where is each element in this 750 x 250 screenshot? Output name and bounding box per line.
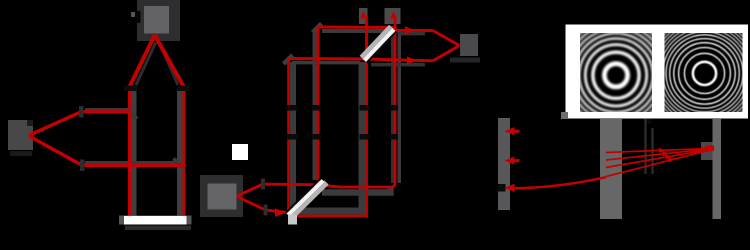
arrow right on bottom output [407,56,417,64]
mirror box M1 outer [137,0,180,41]
arrow up at C top [360,11,367,19]
ghost label under D1 [10,151,32,156]
lens tick bowtie2 upper [261,179,265,190]
arrow right on top output [405,26,415,34]
wire: cavity left vertical [128,86,131,216]
gray tube wall left [131,91,137,216]
wire: top horizontal y27 [318,26,395,29]
gray companion C left (pipe with bottom bend) [296,62,362,211]
gray tube wall right [177,91,183,216]
funnel wall right [159,42,178,85]
M2 dark base [125,226,191,231]
wire: vertical B [317,27,320,185]
gray companion under y187 horizontal + bend up [322,186,391,193]
detector box D1 [8,120,33,150]
arrow into plate top [505,127,520,135]
gray band above beam y112 [85,108,128,112]
gray detector stub top C [359,8,368,24]
gray block panel bottom-left corner [561,112,568,119]
funnel wall left [136,42,156,85]
arrow into plate middle [505,156,520,164]
gray companion A right [290,62,296,207]
zone plate bar (middle) [600,119,622,219]
lens tick bowtie2 lower [264,205,268,216]
laser box L2 outer [200,175,243,217]
arrow into plate bottom + long beam [505,177,607,192]
lens tick left bend [124,86,137,92]
zone plate left [554,13,678,137]
mirror tick at corner B top [313,24,322,33]
mirror M2 gray cap right [187,216,192,225]
mirror tick at T junction x129 [127,108,137,119]
observation plate [498,118,510,210]
M1 left notch [135,11,141,23]
wire: bowtie lower diagonal + horizontal y165 [29,136,186,165]
thin gray grating line 2 [651,128,653,174]
wire: vertical A [287,59,290,213]
lens tick right bend [177,86,190,92]
red blob at source tip [705,146,714,152]
mirror M2 gray cap left [119,216,124,225]
beam splitter BS2 (upper) [362,27,396,63]
wire: V beam right leg [155,35,184,86]
laser box L2 inner [208,184,237,210]
mirror tick at T junction x184 [174,159,185,170]
D1 top-right notch [27,120,33,126]
eye detector gray box [460,34,478,56]
gray detector stub top D [385,8,401,24]
wire: horizontal y58.7 [289,59,434,61]
point source bar (right) [713,119,722,219]
mirror tick at corner A top [284,55,293,64]
wire: eye cone bottom [433,46,459,61]
gray companion D right [398,31,402,183]
mirror M2 white bar [124,216,187,225]
wire: bowtie upper diagonal + horizontal y112 [29,112,131,136]
wire: V beam left leg [130,35,155,87]
gray blob behind source tip [701,142,713,160]
gray companion under y58.7 horizontal [292,61,360,65]
wire: bowtie2 lower diagonal [237,197,291,213]
wire: vertical C with bottom bend [291,16,367,216]
zone plate right [646,15,750,131]
white square marker [232,144,248,160]
gray companion B left [313,31,317,180]
beam splitter BS1 (lower) [286,178,327,224]
thin gray grating line 1 [644,119,646,174]
wire: cavity right vertical [183,85,186,216]
gray companion under y61 output [371,63,425,66]
mirror box M1 inner [144,6,169,34]
red fan lines [606,148,714,176]
lens tick upper vertex [79,106,84,118]
red speck on panel edge [570,64,574,68]
aperture ticks row 2 [287,134,298,140]
white panel [566,25,749,119]
wire: top output y30 [395,28,433,31]
ghost label under eye [450,58,480,63]
gray companion under top output [399,32,425,35]
arrow on lower input beam [275,208,286,217]
fan arrowheads [659,148,676,163]
gray band above beam y165 [85,161,180,165]
wire: eye cone top [433,31,459,46]
aperture ticks row 1 [287,105,298,111]
wire: bowtie2 upper diagonal [237,184,320,196]
lens tick lower vertex [80,160,85,172]
gray companion D left [391,31,394,183]
M1 left nub [131,12,135,17]
slit notch on plate [498,184,506,192]
gray companion under top horizontal [322,29,392,33]
wire: lower output y187 to vertical D [320,16,395,187]
black notch below panel [647,119,652,124]
arrow up at D top [390,11,397,19]
